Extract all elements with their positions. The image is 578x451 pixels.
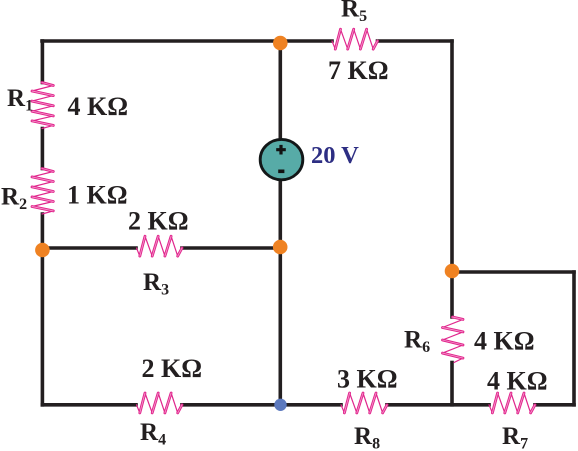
svg-text:2 KΩ: 2 KΩ <box>142 354 203 383</box>
svg-text:R1: R1 <box>7 85 33 115</box>
voltage source V1 minus terminal <box>278 170 284 174</box>
svg-text:1 KΩ: 1 KΩ <box>67 181 128 210</box>
wire top-right horizontal (R5 to right corner) <box>378 39 453 43</box>
resistor R8 (horizontal, 3 KOhm) <box>341 393 387 413</box>
resistor R3 (horizontal, 2 KOhm) <box>137 236 183 256</box>
wire center vertical lower (source V1 through node C to node D) <box>278 180 282 405</box>
resistor R6 (vertical, 4 KOhm) <box>443 317 464 363</box>
wire bottom segment 4 (R7 to bottom-right corner) <box>535 403 574 407</box>
wire middle horizontal right (R3 to node C) <box>182 246 280 250</box>
svg-text:R4: R4 <box>140 419 166 449</box>
svg-text:R8: R8 <box>354 423 380 451</box>
wire left vertical lower (R2 through node B to bottom corner) <box>41 214 45 405</box>
wire bottom segment 2 (R4 to R8, through node D) <box>182 403 341 407</box>
wire bottom segment 3 (R8 to R7, through R6 foot) <box>387 403 489 407</box>
resistor R1 (vertical, 4 KOhm) <box>32 83 53 129</box>
node C junction dot (center middle) <box>273 240 288 255</box>
svg-text:R6: R6 <box>404 327 430 357</box>
resistor R5 (horizontal, 7 KOhm) <box>332 29 378 49</box>
resistor R4 (horizontal, 2 KOhm) <box>137 393 183 413</box>
svg-text:4 KΩ: 4 KΩ <box>68 92 129 121</box>
resistor R7 (horizontal, 4 KOhm) <box>489 393 535 413</box>
wire right inner vertical (top corner through node E to R6) <box>450 41 454 317</box>
resistor R2 (vertical, 1 KOhm) <box>32 169 53 215</box>
wire center vertical upper (node A to source V1) <box>278 41 282 140</box>
svg-text:R5: R5 <box>341 0 367 25</box>
svg-text:3 KΩ: 3 KΩ <box>337 365 398 394</box>
wire left vertical upper (corner to R1) <box>41 41 45 83</box>
voltage source V1 plus terminal <box>276 145 286 155</box>
svg-text:R2: R2 <box>1 183 27 213</box>
wire R6 foot vertical (R6 to bottom wire) <box>450 363 454 405</box>
svg-text:20 V: 20 V <box>311 142 359 169</box>
node E junction dot (right) <box>445 264 460 279</box>
svg-text:7 KΩ: 7 KΩ <box>328 56 389 85</box>
wire right outer vertical (right edge down) <box>572 272 576 405</box>
wire right outer horizontal (node E to right edge) <box>452 270 574 274</box>
svg-text:4 KΩ: 4 KΩ <box>474 327 535 356</box>
svg-text:R7: R7 <box>502 423 528 451</box>
wire top-left horizontal (node A to R5) <box>42 39 332 43</box>
voltage source V1 body <box>260 139 303 179</box>
node B junction dot (left middle) <box>35 243 50 258</box>
wire bottom segment 1 (left corner to R4) <box>42 403 136 407</box>
node A junction dot (top center) <box>273 36 288 51</box>
svg-text:R3: R3 <box>143 269 169 299</box>
svg-text:4 KΩ: 4 KΩ <box>487 367 548 396</box>
node D junction dot (bottom center, blue) <box>274 399 286 411</box>
svg-text:2 KΩ: 2 KΩ <box>128 207 189 236</box>
wire left vertical between R1 and R2 <box>41 129 45 169</box>
wire middle horizontal left (node B to R3) <box>42 246 136 250</box>
